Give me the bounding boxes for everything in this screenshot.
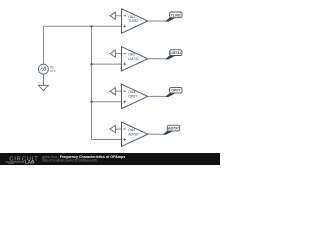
wire: bus to OA4 noninverting input xyxy=(92,139,122,141)
net flag at OA3 inverting input xyxy=(110,88,122,95)
net flag at OA1 inverting input xyxy=(110,12,122,19)
op-amp OA4 AD797 xyxy=(122,122,148,146)
junction node at bus row 3 xyxy=(90,101,92,103)
svg-text:http://circuitlab.com/c/573b69: http://circuitlab.com/c/573b69acea7b xyxy=(42,159,97,163)
svg-text:LAB: LAB xyxy=(25,159,35,164)
ground xyxy=(38,85,48,90)
svg-text:AD797: AD797 xyxy=(128,132,139,136)
output net label TL082 xyxy=(165,12,182,22)
output net label AD797 xyxy=(163,125,180,135)
svg-text:sine: sine xyxy=(50,69,56,73)
wire: OA1 output xyxy=(148,20,166,22)
junction node at bus row 2 xyxy=(90,63,92,65)
op-amp OA1 TL082 xyxy=(122,9,148,33)
svg-text:TL082: TL082 xyxy=(128,19,138,23)
svg-text:OP07: OP07 xyxy=(171,89,180,93)
wire: OA2 output xyxy=(148,58,166,60)
junction node at bus row 1 xyxy=(90,25,92,27)
wire: OA3 output xyxy=(148,95,166,97)
wire: vertical bus xyxy=(91,26,93,139)
wire: V1 to ground xyxy=(43,74,45,85)
wire: bus to OA2 noninverting input xyxy=(92,63,122,65)
net flag at OA2 inverting input xyxy=(110,50,122,57)
footer bar xyxy=(0,153,220,165)
wire: bus to OA3 noninverting input xyxy=(92,101,122,103)
net flag at OA4 inverting input xyxy=(110,125,122,132)
output net label LM741 xyxy=(165,50,182,60)
footer title text xyxy=(42,155,125,159)
op-amp OA2 LM741 xyxy=(122,47,148,71)
svg-text:LM741: LM741 xyxy=(170,51,181,55)
voltage source V1 (sine function generator) xyxy=(38,64,55,74)
wire: OA4 output xyxy=(148,133,163,135)
output net label OP07 xyxy=(165,87,182,97)
footer url text xyxy=(42,159,97,163)
op-amp OA3 OP07 xyxy=(122,84,148,108)
wire: V1 top to bus junction and OA1 noninverting input xyxy=(44,26,122,64)
svg-text:LM741: LM741 xyxy=(128,57,139,61)
svg-text:OP07: OP07 xyxy=(128,95,137,99)
CircuitLab logo xyxy=(6,156,39,164)
svg-text:TL082: TL082 xyxy=(171,13,181,17)
svg-text:AD797: AD797 xyxy=(168,127,179,131)
